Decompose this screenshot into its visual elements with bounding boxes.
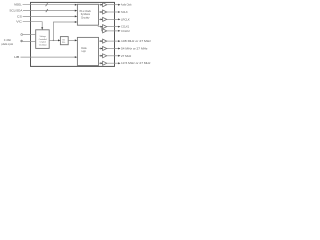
wire box to buffer row 6 bbox=[98, 40, 102, 42]
junction riser VCXO to PLL input bbox=[53, 22, 76, 40]
wire buffer row 4 to pin bbox=[107, 26, 119, 28]
wire box to buffer row 9 bbox=[98, 62, 102, 64]
crystal pad bottom bbox=[21, 40, 23, 42]
svg-text:108 MHz or 27 MHz: 108 MHz or 27 MHz bbox=[121, 39, 152, 43]
arrowhead output row 8 bbox=[118, 55, 120, 57]
wire SCL/SDA to PLL bbox=[23, 10, 76, 12]
arrowhead VC into VCXO top bbox=[41, 27, 43, 29]
svg-text:27 MHz: 27 MHz bbox=[121, 54, 132, 58]
svg-text:SCLK: SCLK bbox=[121, 10, 128, 14]
bus slash SCL/SDA bbox=[46, 9, 48, 12]
svg-text:LRCLK: LRCLK bbox=[121, 17, 130, 21]
arrowhead into buffer row 8 bbox=[101, 55, 103, 57]
arrowhead output row 9 bbox=[118, 62, 120, 64]
arrowhead into buffer row 9 bbox=[101, 62, 103, 64]
arrowhead SCL/SDA into PLL bbox=[75, 10, 77, 12]
VCXO box bbox=[36, 30, 50, 49]
arrowhead into XO PLL box bbox=[58, 39, 60, 41]
buffer amp row 2 bbox=[103, 10, 107, 14]
wire VC elbow down to VCXO bbox=[23, 22, 43, 28]
svg-text:Voltage: Voltage bbox=[40, 35, 47, 38]
wire buffer row 5 to pin bbox=[107, 30, 119, 32]
arrowhead output row 6 bbox=[118, 40, 120, 42]
arrowhead CS into PLL bbox=[75, 15, 77, 17]
arrowhead into buffer row 4 bbox=[101, 26, 103, 28]
wire box to buffer row 4 bbox=[98, 26, 103, 28]
svg-text:Controlled: Controlled bbox=[39, 38, 47, 41]
XO PLL small box bbox=[60, 37, 68, 45]
wire box to buffer row 1 bbox=[98, 4, 102, 6]
wire buffer row 2 to pin bbox=[107, 11, 119, 13]
buffer amp row 8 bbox=[103, 54, 107, 58]
svg-text:Logic: Logic bbox=[82, 51, 87, 53]
arrowhead riser into PLL bbox=[75, 21, 77, 23]
svg-text:CS: CS bbox=[17, 14, 22, 18]
arrowhead into buffer row 3 bbox=[101, 18, 103, 20]
wire buffer row 1 to pin bbox=[107, 4, 119, 6]
arrowhead output row 7 bbox=[118, 48, 120, 50]
wire VCXO out to XO PLL box bbox=[49, 39, 59, 41]
Divide Logic box bbox=[77, 37, 98, 65]
buffer amp row 7 bbox=[103, 47, 107, 51]
wire buffer row 3 to pin bbox=[107, 18, 119, 20]
buffer amp row 5 bbox=[103, 29, 107, 33]
svg-text:VC: VC bbox=[16, 20, 22, 24]
wire buffer row 8 to pin bbox=[107, 55, 119, 57]
wire MSEL to PLL bbox=[23, 4, 77, 6]
wire drop to row 5 buffer bbox=[101, 27, 104, 31]
wire box to buffer row 3 bbox=[98, 18, 102, 20]
wire box to buffer row 7 bbox=[98, 48, 102, 50]
arrowhead HB into Divide Logic bbox=[75, 56, 77, 58]
arrowhead into buffer row 1 bbox=[101, 4, 103, 6]
buffer amp row 6 bbox=[103, 39, 107, 43]
svg-text:Circuitry: Circuitry bbox=[81, 15, 90, 19]
svg-text:Oscillator: Oscillator bbox=[39, 44, 47, 47]
arrowhead into buffer row 2 bbox=[101, 11, 103, 13]
svg-text:HB: HB bbox=[14, 55, 19, 59]
chip outline U1 bbox=[31, 2, 115, 66]
svg-text:CCLK1: CCLK1 bbox=[121, 25, 130, 29]
wire crystal bottom to VCXO bbox=[23, 41, 36, 43]
svg-text:Audio Clock: Audio Clock bbox=[121, 3, 132, 7]
buffer amp row 4 bbox=[103, 25, 107, 29]
svg-text:SCL/SDA: SCL/SDA bbox=[9, 8, 22, 12]
arrowhead into buffer row 6 bbox=[101, 40, 103, 42]
buffer amp row 9 bbox=[103, 61, 107, 65]
arrowhead output row 1 bbox=[118, 4, 120, 6]
buffer amp row 1 bbox=[103, 3, 107, 7]
PLL Clock Synthesis box bbox=[77, 4, 98, 25]
bus slash MSEL bbox=[46, 3, 48, 6]
wire crystal top to VCXO bbox=[23, 34, 36, 36]
svg-text:Divide: Divide bbox=[81, 48, 87, 50]
junction dot bbox=[53, 40, 54, 41]
svg-text:pullable crystal: pullable crystal bbox=[1, 42, 13, 46]
wire buffer row 6 to pin bbox=[107, 40, 119, 42]
svg-text:Crystal: Crystal bbox=[40, 41, 47, 44]
wire HB to Divide Logic bbox=[21, 56, 77, 58]
crystal pad top bbox=[21, 34, 23, 36]
wire XO PLL box to Divide Logic bbox=[68, 39, 76, 41]
svg-text:13.5 MHz or 27 MHz: 13.5 MHz or 27 MHz bbox=[121, 61, 151, 65]
svg-text:MSEL: MSEL bbox=[14, 3, 22, 7]
arrowhead output row 3 bbox=[118, 18, 120, 20]
arrowhead into buffer row 7 bbox=[101, 48, 103, 50]
wire buffer row 9 to pin bbox=[107, 62, 119, 64]
wire box to buffer row 2 bbox=[98, 11, 102, 13]
arrowhead into Divide Logic bbox=[75, 39, 77, 41]
arrowhead MSEL into PLL bbox=[75, 4, 77, 6]
wire CS to PLL bbox=[23, 15, 77, 17]
svg-text:CCLK2: CCLK2 bbox=[121, 29, 130, 33]
arrowhead output row 5 bbox=[118, 30, 120, 32]
svg-text:54 MHz or 27 MHz: 54 MHz or 27 MHz bbox=[121, 47, 148, 51]
arrowhead output row 2 bbox=[118, 11, 120, 13]
buffer amp row 3 bbox=[103, 17, 107, 21]
arrowhead output row 4 bbox=[118, 26, 120, 28]
wire box to buffer row 8 bbox=[98, 55, 102, 57]
wire buffer row 7 to pin bbox=[107, 48, 119, 50]
